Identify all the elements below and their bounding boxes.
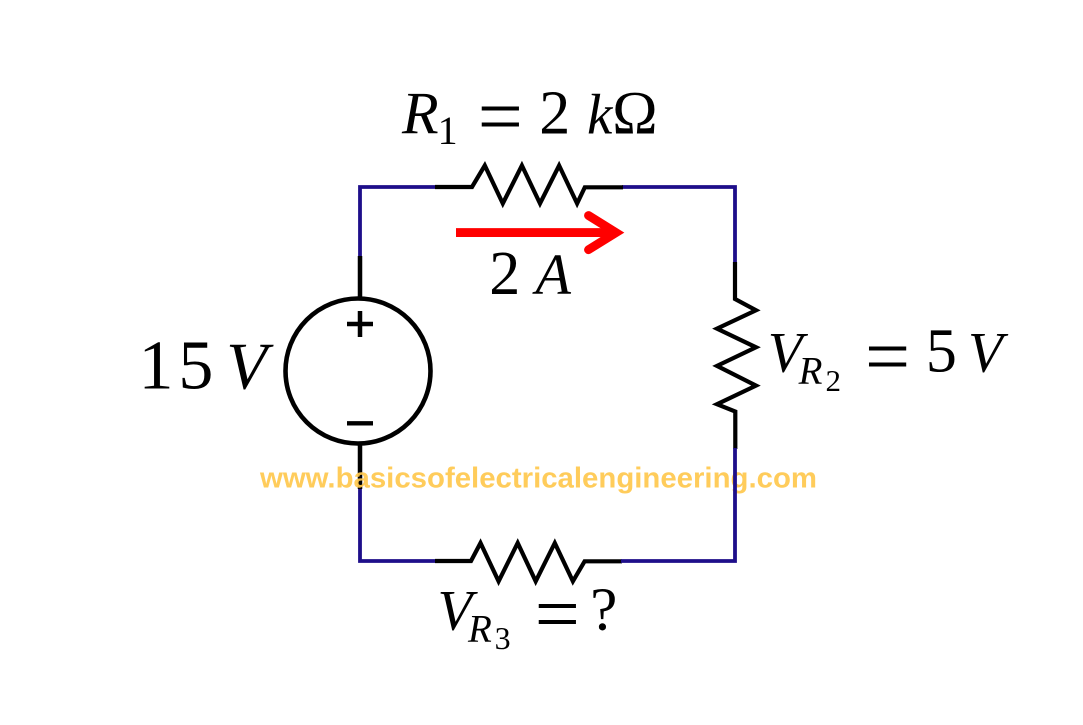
arrow head xyxy=(589,216,617,250)
wire bottom-left navy segment xyxy=(360,486,436,561)
wire: source bottom lead xyxy=(358,440,363,489)
resistor R3 xyxy=(435,543,622,581)
wire top-right navy segment xyxy=(622,187,735,262)
svg-text:R1=2kΩ: R1=2kΩ xyxy=(401,73,658,161)
voltage source V1 (15 V) xyxy=(286,256,431,489)
svg-text:15V: 15V xyxy=(139,328,275,405)
svg-text:VR2=5V: VR2=5V xyxy=(768,313,1009,401)
source body circle xyxy=(286,299,431,444)
resistor R2 xyxy=(717,262,756,449)
wire bottom-right navy segment xyxy=(621,448,735,561)
minus polarity mark xyxy=(347,421,373,425)
wire top-left navy segment xyxy=(360,187,436,258)
svg-text:VR3=?: VR3=? xyxy=(438,570,618,658)
current direction arrow (2 A) xyxy=(456,216,616,250)
plus polarity mark xyxy=(347,311,373,337)
arrow shaft xyxy=(456,228,616,237)
resistor R1 xyxy=(435,166,623,204)
wire: source top lead xyxy=(358,256,363,302)
svg-text:2A: 2A xyxy=(489,240,571,308)
